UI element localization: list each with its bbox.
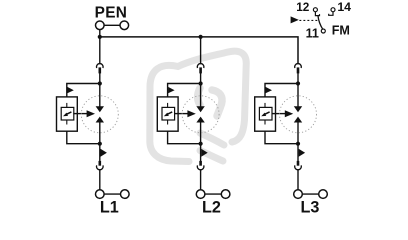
- wire PEN bus: [100, 37, 298, 64]
- varistor bottom lead L2: [167, 120, 169, 125]
- spark gap lower electrode arrow L2: [196, 117, 204, 123]
- FM contact pin 14: [331, 8, 335, 12]
- wire varistor branch to node B L3: [265, 131, 298, 144]
- varistor bottom lead L3: [264, 120, 266, 125]
- spark gap upper electrode arrow L1: [99, 84, 101, 107]
- wire varistor branch to node B L1: [67, 131, 100, 144]
- varistor enclosure box L2: [157, 97, 178, 131]
- svg-text:FM: FM: [332, 23, 350, 37]
- terminal bridge L2: [205, 193, 221, 195]
- node junction L2 on PEN bus: [199, 35, 203, 39]
- svg-text:14: 14: [337, 0, 351, 14]
- wire node B down L3: [297, 144, 299, 161]
- plug-in disconnect socket (bottom) L1: [97, 165, 104, 169]
- FM switch lever: [318, 16, 323, 29]
- disconnector flag (lower) L2: [201, 149, 208, 157]
- terminal bridge L1: [104, 193, 120, 195]
- trigger line varistor to spark gap L2: [174, 113, 188, 115]
- wire pin to node A L3: [297, 73, 299, 84]
- watermark outline: [150, 51, 246, 161]
- plug-in disconnect pin (bottom) L1: [99, 161, 102, 166]
- terminal bridge PEN: [104, 24, 120, 26]
- wire node A to varistor branch L1: [67, 84, 100, 98]
- wire PEN terminal to bus: [99, 30, 101, 37]
- terminal L2 right: [221, 190, 230, 199]
- node B L2: [199, 142, 203, 146]
- wire pin to node A L1: [99, 73, 101, 84]
- node A L1: [98, 81, 102, 85]
- svg-text:L3: L3: [301, 199, 320, 217]
- varistor element box L2: [162, 107, 175, 120]
- svg-text:11: 11: [306, 27, 319, 41]
- watermark inner stroke 3: [200, 133, 224, 145]
- plug-in disconnect socket (top) L1: [97, 64, 104, 68]
- plug-in disconnect socket (top) L3: [295, 64, 302, 68]
- node B L3: [296, 142, 300, 146]
- wire varistor branch to node B L2: [168, 131, 201, 144]
- watermark inner stroke 1: [198, 88, 200, 105]
- wire node A to varistor branch L2: [168, 84, 201, 98]
- plug-in disconnect pin (bottom) L2: [199, 161, 202, 166]
- varistor top lead L2: [167, 103, 169, 108]
- surge arrow symbol inside varistor box L3: [265, 112, 270, 114]
- terminal L3 right: [319, 190, 328, 199]
- spark gap lower electrode arrow L3: [294, 117, 302, 123]
- spark gap upper electrode arrow L2: [200, 84, 202, 107]
- svg-text:L2: L2: [202, 199, 221, 217]
- trigger arrowhead L1: [87, 110, 95, 117]
- plug-in disconnect socket (top) L2: [197, 64, 204, 68]
- wire socket to terminal L2: [200, 169, 202, 190]
- disconnector flag (lower) L3: [299, 149, 306, 157]
- disconnector flag (upper) L3: [266, 87, 273, 93]
- wire L2 drop from PEN bus: [200, 37, 202, 64]
- plug-in disconnect pin (top) L3: [297, 67, 300, 73]
- terminal bridge L3: [302, 193, 318, 195]
- varistor element box L1: [61, 107, 74, 120]
- node junction L1 on PEN bus: [98, 35, 102, 39]
- plug-in disconnect socket (bottom) L3: [295, 165, 302, 169]
- varistor enclosure box L1: [57, 97, 78, 131]
- spark gap upper electrode arrow L3: [297, 84, 299, 107]
- plug-in disconnect pin (bottom) L3: [297, 161, 300, 166]
- varistor top lead L1: [66, 103, 68, 108]
- spark gap dashed circle L1: [81, 96, 118, 133]
- node A L3: [296, 81, 300, 85]
- plug-in disconnect socket (bottom) L2: [197, 165, 204, 169]
- terminal PEN left: [96, 21, 105, 30]
- spark gap lower electrode arrow L1: [96, 117, 104, 123]
- FM contact pin 11 (common): [321, 29, 325, 33]
- wire node B down L1: [99, 144, 101, 161]
- varistor element box L3: [259, 107, 272, 120]
- watermark inner stroke 4: [200, 151, 223, 162]
- disconnector flag (upper) L1: [67, 87, 74, 93]
- terminal L3 left: [294, 190, 303, 199]
- terminal L2 left: [196, 190, 205, 199]
- FM actuation dashed link: [299, 19, 317, 21]
- arrester module F2 (L2): [157, 35, 230, 217]
- svg-text:12: 12: [296, 0, 310, 14]
- FM actuation arrow: [291, 16, 299, 23]
- spark gap dashed circle L3: [280, 96, 317, 133]
- trigger line varistor to spark gap L1: [73, 113, 87, 115]
- wire node A to varistor branch L3: [265, 84, 298, 98]
- wire node B down L2: [200, 144, 202, 161]
- spark gap dashed circle L2: [182, 96, 219, 133]
- plug-in disconnect pin (top) L1: [99, 67, 102, 73]
- arrester module F1 (L1): [57, 35, 130, 217]
- varistor enclosure box L3: [255, 97, 276, 131]
- svg-text:PEN: PEN: [95, 4, 128, 21]
- varistor top lead L3: [264, 103, 266, 108]
- trigger arrowhead L3: [285, 110, 293, 117]
- wire socket to terminal L1: [99, 169, 101, 190]
- wire pin to node A L2: [200, 73, 202, 84]
- watermark inner stroke 2: [212, 90, 222, 116]
- FM contact pin 12: [313, 8, 317, 12]
- surge arrow symbol inside varistor box L2: [167, 112, 172, 114]
- terminal PEN right: [120, 21, 129, 30]
- svg-text:L1: L1: [100, 199, 119, 217]
- wire L1 drop from PEN bus: [99, 37, 101, 64]
- disconnector flag (lower) L1: [100, 149, 107, 157]
- terminal L1 left: [96, 190, 105, 199]
- surge arrow symbol inside varistor box L1: [66, 112, 71, 114]
- terminal L1 right: [121, 190, 130, 199]
- plug-in disconnect pin (top) L2: [199, 67, 202, 73]
- disconnector flag (upper) L2: [168, 87, 175, 93]
- node B L1: [98, 142, 102, 146]
- trigger line varistor to spark gap L3: [272, 113, 286, 115]
- node A L2: [199, 81, 203, 85]
- wire socket to terminal L3: [297, 169, 299, 190]
- arrester module F3 (L3): [255, 64, 328, 217]
- trigger arrowhead L2: [187, 110, 195, 117]
- varistor bottom lead L1: [66, 120, 68, 125]
